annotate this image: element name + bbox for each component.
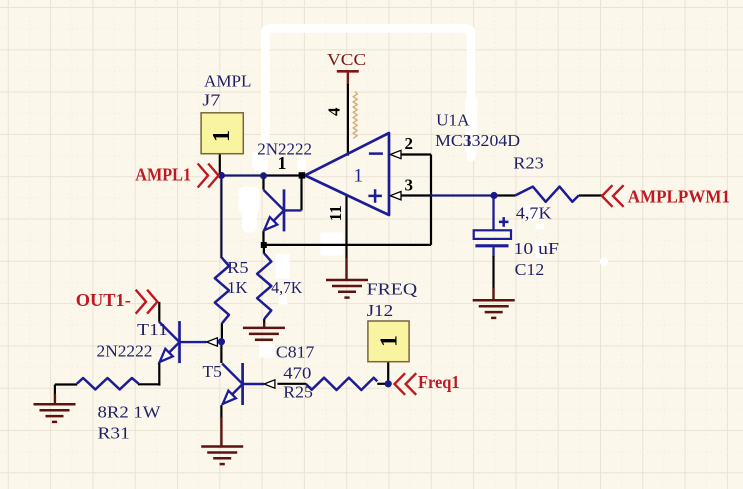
svg-text:4,7K: 4,7K	[271, 278, 303, 297]
svg-text:J12: J12	[367, 301, 394, 320]
svg-text:10 uF: 10 uF	[514, 239, 559, 258]
svg-text:T5: T5	[203, 362, 222, 381]
svg-text:AMPL1: AMPL1	[135, 165, 191, 185]
svg-text:1K: 1K	[227, 278, 248, 297]
svg-text:R23: R23	[513, 153, 543, 172]
svg-text:1: 1	[354, 166, 364, 187]
svg-text:2N2222: 2N2222	[97, 342, 153, 361]
svg-text:AMPL: AMPL	[204, 71, 251, 90]
svg-text:U1A: U1A	[436, 110, 470, 129]
svg-text:3: 3	[405, 176, 414, 195]
svg-text:1: 1	[278, 153, 287, 173]
svg-text:11: 11	[326, 205, 345, 221]
svg-text:J7: J7	[202, 91, 221, 110]
svg-text:4,7K: 4,7K	[516, 203, 552, 222]
svg-text:4: 4	[325, 107, 344, 116]
svg-text:VCC: VCC	[327, 50, 366, 69]
svg-text:AMPLPWM1: AMPLPWM1	[628, 187, 730, 207]
svg-text:2: 2	[405, 134, 414, 153]
svg-text:I: I	[466, 133, 471, 150]
svg-text:470: 470	[283, 363, 311, 382]
svg-text:C12: C12	[515, 260, 545, 279]
svg-text:FREQ: FREQ	[367, 280, 418, 299]
svg-text:MC33204D: MC33204D	[435, 131, 520, 150]
svg-text:T11: T11	[137, 320, 168, 339]
svg-text:8R2 1W: 8R2 1W	[98, 403, 162, 422]
svg-text:R25: R25	[283, 383, 313, 402]
svg-text:1: 1	[377, 335, 403, 347]
svg-text:OUT1-: OUT1-	[76, 290, 131, 310]
svg-text:R31: R31	[98, 424, 130, 443]
svg-text:1: 1	[209, 130, 235, 142]
svg-text:R5: R5	[227, 258, 248, 277]
svg-text:Freq1: Freq1	[418, 372, 460, 392]
